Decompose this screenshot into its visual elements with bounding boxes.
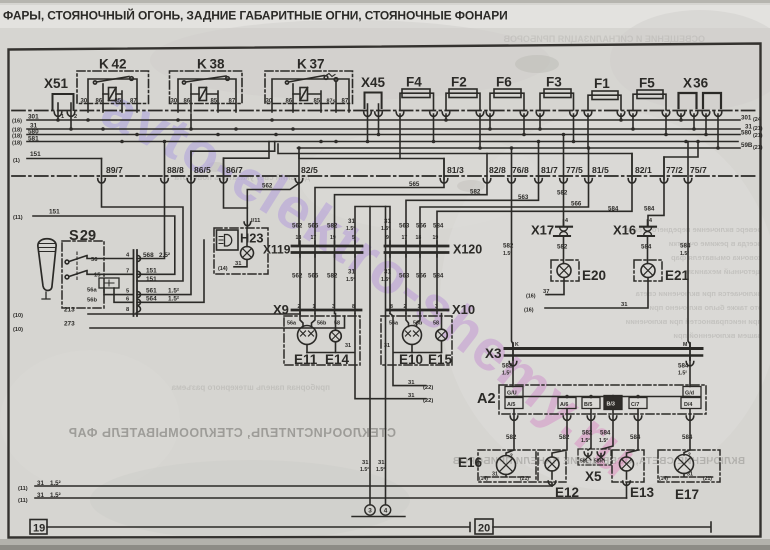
relay K37 <box>265 71 353 112</box>
wire 584 1.5 B/3 to X5 <box>602 410 613 450</box>
wire 584 1.5 (75/7 to X3 M) <box>688 142 690 349</box>
connector X9 <box>292 253 361 314</box>
lamp E12 <box>538 450 566 486</box>
junction dots top <box>56 118 720 150</box>
svg-text:включается при включении света: включается при включении света <box>635 289 762 298</box>
svg-text:2: 2 <box>688 453 691 459</box>
svg-text:ФАРЫ, СТОЯНОЧНЫЙ ОГОНЬ, ЗАДНИЕ: ФАРЫ, СТОЯНОЧНЫЙ ОГОНЬ, ЗАДНИЕ ГАБАРИТНЫ… <box>3 8 508 23</box>
svg-text:562: 562 <box>292 273 303 280</box>
headlamp unit housing E11/E14 <box>284 316 360 365</box>
svg-text:X120: X120 <box>453 243 482 257</box>
svg-text:X 36: X 36 <box>683 76 709 91</box>
svg-text:(1): (1) <box>13 158 20 164</box>
wire 151 feed stub <box>27 158 102 160</box>
svg-text:G/d: G/d <box>685 391 694 397</box>
svg-text:582: 582 <box>559 434 570 441</box>
svg-text:82/8: 82/8 <box>489 165 506 175</box>
svg-text:A/6: A/6 <box>560 402 568 408</box>
lamp E20 <box>546 260 579 295</box>
wire 580 bus <box>27 134 740 136</box>
svg-text:582: 582 <box>557 190 568 197</box>
ground point 4 <box>352 505 405 517</box>
svg-text:566: 566 <box>416 223 427 230</box>
svg-text:20: 20 <box>478 523 490 535</box>
svg-text:584: 584 <box>680 243 691 250</box>
svg-text:565: 565 <box>308 223 319 230</box>
svg-text:58: 58 <box>433 321 439 327</box>
svg-text:565: 565 <box>308 273 319 280</box>
svg-text:563: 563 <box>399 223 410 230</box>
connector X120 <box>385 241 448 257</box>
switch S29 <box>62 241 133 308</box>
svg-text:2: 2 <box>510 454 513 460</box>
svg-text:E20: E20 <box>582 268 606 283</box>
svg-text:82/5: 82/5 <box>301 165 318 175</box>
svg-text:(21): (21) <box>753 145 763 151</box>
svg-text:K 37: K 37 <box>297 57 324 72</box>
wire 213 <box>88 312 300 314</box>
svg-text:K: K <box>515 342 519 348</box>
svg-text:19: 19 <box>33 523 45 535</box>
svg-text:82/1: 82/1 <box>635 165 652 175</box>
svg-text:30: 30 <box>171 99 178 105</box>
wire 568 2.5 (88/8 to S29 pin4) <box>137 142 165 259</box>
svg-text:561: 561 <box>146 288 157 295</box>
svg-text:31: 31 <box>37 480 44 487</box>
svg-text:19: 19 <box>330 235 336 241</box>
connector X16 <box>638 220 656 264</box>
svg-text:56a: 56a <box>87 288 97 294</box>
svg-text:5: 5 <box>352 235 355 241</box>
svg-text:81/5: 81/5 <box>592 165 609 175</box>
svg-text:1.5²: 1.5² <box>346 226 355 232</box>
svg-text:A/5: A/5 <box>507 402 515 408</box>
wire 151 (11) to S29 pin7 <box>33 216 175 274</box>
connector X17 <box>554 220 572 264</box>
wire 31 ground X9 <box>307 314 426 399</box>
svg-text:582: 582 <box>502 363 513 370</box>
wire 584 D/4 to E17 <box>684 410 690 456</box>
svg-text:1.5²: 1.5² <box>581 438 590 444</box>
svg-text:77/2: 77/2 <box>666 165 683 175</box>
svg-text:2: 2 <box>404 304 407 310</box>
svg-text:3: 3 <box>332 304 335 310</box>
connector X36 <box>677 93 722 148</box>
svg-text:563: 563 <box>399 273 410 280</box>
svg-text:58R i: 58R i <box>594 459 606 465</box>
svg-text:81/7: 81/7 <box>541 165 558 175</box>
svg-text:1.5²: 1.5² <box>381 277 390 283</box>
svg-text:(21): (21) <box>703 476 712 482</box>
svg-text:76/8: 76/8 <box>512 165 529 175</box>
wire 301 bus <box>27 119 740 121</box>
svg-text:(18): (18) <box>12 141 22 147</box>
wire 562 (82/5 to H23) <box>247 184 298 228</box>
svg-text:30: 30 <box>81 99 88 105</box>
wire 31 ground line 1 <box>35 485 552 487</box>
svg-text:(10): (10) <box>13 313 23 319</box>
rail pin cups row2 <box>98 179 692 183</box>
svg-text:7: 7 <box>126 269 129 275</box>
svg-text:(21): (21) <box>753 133 763 139</box>
connector X3 <box>505 343 702 387</box>
svg-text:(11): (11) <box>18 486 28 492</box>
wire segment y153.5 <box>278 144 632 180</box>
svg-text:1: 1 <box>61 114 64 120</box>
svg-text:30: 30 <box>266 99 273 105</box>
lamp E15 <box>436 314 448 353</box>
svg-text:213: 213 <box>64 307 75 314</box>
svg-text:584: 584 <box>433 273 444 280</box>
svg-text:87: 87 <box>342 99 349 105</box>
svg-text:37: 37 <box>543 289 549 295</box>
svg-text:584: 584 <box>644 206 655 213</box>
fuse F1 <box>584 91 625 148</box>
svg-text:G/U: G/U <box>507 391 517 397</box>
svg-text:1: 1 <box>418 304 421 310</box>
svg-text:15: 15 <box>94 273 101 279</box>
svg-text:щеточный механизм: щеточный механизм <box>685 267 762 276</box>
relay K38 <box>170 71 243 112</box>
svg-text:B/5: B/5 <box>584 402 592 408</box>
svg-text:75/7: 75/7 <box>690 165 707 175</box>
svg-text:584: 584 <box>600 430 611 437</box>
svg-text:(22): (22) <box>423 385 433 391</box>
lamp E11 <box>298 314 317 353</box>
svg-text:89/7: 89/7 <box>106 165 123 175</box>
svg-text:X51: X51 <box>44 76 69 91</box>
wire 31 ground line 2 <box>35 497 627 499</box>
svg-text:M: M <box>683 342 687 348</box>
svg-text:582: 582 <box>557 244 568 251</box>
svg-text:(18): (18) <box>12 134 22 140</box>
fuse F4 <box>396 89 437 159</box>
svg-text:58L: 58L <box>580 459 589 465</box>
svg-text:1.5²: 1.5² <box>346 277 355 283</box>
wire 584 (77/2 to X16) <box>648 157 664 226</box>
svg-text:F4: F4 <box>406 75 422 90</box>
svg-text:E13: E13 <box>630 485 655 500</box>
svg-text:56a: 56a <box>389 321 399 327</box>
svg-text:(11): (11) <box>18 498 28 504</box>
connector rail (fuse box upper boundary) <box>12 110 756 112</box>
connector X5 <box>578 449 611 465</box>
lamp E21 <box>545 260 662 308</box>
svg-text:I/11: I/11 <box>251 218 261 224</box>
mirrored print-through from reverse page <box>68 426 396 440</box>
wire 581 bus <box>27 141 738 143</box>
wire 31 1.5 long left <box>369 207 371 505</box>
svg-text:X5: X5 <box>585 469 602 484</box>
svg-text:31: 31 <box>687 472 693 478</box>
svg-text:31: 31 <box>408 393 415 399</box>
svg-text:X16: X16 <box>613 223 636 238</box>
wire 582 A/5 to E16 <box>506 410 514 456</box>
svg-text:(22): (22) <box>423 398 433 404</box>
wire 582 A/6 to E12 <box>552 410 567 458</box>
connector X10 <box>387 253 448 314</box>
svg-text:ОСВЕЩЕНИЕ И СИГНАЛИЗАЦИЯ ПРИБО: ОСВЕЩЕНИЕ И СИГНАЛИЗАЦИЯ ПРИБОРОВ <box>503 34 705 44</box>
lamp E16 <box>478 450 536 482</box>
wire segment y158.5 <box>299 154 444 180</box>
connector X119 <box>292 241 362 257</box>
svg-text:(24: (24 <box>753 117 761 123</box>
svg-text:568: 568 <box>143 252 154 259</box>
svg-text:88/8: 88/8 <box>167 165 184 175</box>
svg-text:A2: A2 <box>477 391 496 407</box>
svg-text:584: 584 <box>608 206 619 213</box>
svg-text:вашем включенной при: вашем включенной при <box>673 331 762 340</box>
svg-text:(11): (11) <box>13 215 23 221</box>
headlamp unit housing E10/E15 <box>381 316 452 365</box>
svg-text:562: 562 <box>262 183 273 190</box>
svg-text:1.5²: 1.5² <box>168 288 179 295</box>
svg-text:1.5²: 1.5² <box>680 251 689 257</box>
svg-text:1.5²: 1.5² <box>599 438 608 444</box>
svg-text:582: 582 <box>582 430 593 437</box>
wire 582 1.5 (76/8 to X3 K) <box>512 148 514 348</box>
relay K42 <box>77 71 149 112</box>
svg-text:582: 582 <box>506 434 517 441</box>
svg-text:(16): (16) <box>524 308 534 314</box>
svg-text:86/5: 86/5 <box>194 165 211 175</box>
svg-text:17: 17 <box>311 235 317 241</box>
wire segment 86/7 upper <box>224 142 270 180</box>
svg-text:E17: E17 <box>675 487 699 502</box>
svg-text:580: 580 <box>28 129 39 136</box>
wire 565 (81/3 to X119) <box>315 159 444 247</box>
wire 59B bus <box>298 147 741 149</box>
svg-text:X17: X17 <box>531 223 554 238</box>
svg-text:58: 58 <box>334 321 340 327</box>
svg-text:31: 31 <box>384 218 391 225</box>
svg-text:1.5²: 1.5² <box>376 467 385 473</box>
svg-text:F1: F1 <box>594 76 610 91</box>
svg-text:(16): (16) <box>12 119 22 125</box>
svg-text:1: 1 <box>313 304 316 310</box>
svg-text:2.5²: 2.5² <box>159 252 170 259</box>
svg-text:X45: X45 <box>361 75 386 90</box>
svg-text:85: 85 <box>115 99 122 105</box>
connector X51 <box>53 94 75 129</box>
svg-text:4: 4 <box>384 508 388 515</box>
svg-text:2: 2 <box>74 114 77 120</box>
wire 273 <box>90 316 345 328</box>
svg-text:F5: F5 <box>639 76 655 91</box>
svg-text:31: 31 <box>384 269 391 276</box>
svg-text:584: 584 <box>630 434 641 441</box>
wire 566 (81/5 to X120) <box>420 148 589 246</box>
svg-text:87: 87 <box>130 99 137 105</box>
svg-text:31: 31 <box>37 492 44 499</box>
svg-text:1.5²: 1.5² <box>678 371 687 377</box>
wire segment 561 upper <box>191 142 275 180</box>
svg-text:E15: E15 <box>428 352 453 367</box>
svg-text:1.5²: 1.5² <box>502 371 511 377</box>
lamp E17 <box>658 450 720 482</box>
svg-text:4: 4 <box>565 218 568 224</box>
svg-text:F3: F3 <box>546 75 562 90</box>
svg-text:85: 85 <box>314 99 321 105</box>
wire I/11 (86/7 to H23) <box>224 158 248 208</box>
svg-text:S 29: S 29 <box>69 228 96 244</box>
svg-text:582: 582 <box>327 223 338 230</box>
svg-text:56b: 56b <box>413 321 423 327</box>
svg-text:E14: E14 <box>325 352 350 367</box>
svg-text:3: 3 <box>368 508 372 515</box>
svg-text:31: 31 <box>348 218 355 225</box>
svg-text:86: 86 <box>184 99 191 105</box>
svg-text:(16): (16) <box>526 294 536 300</box>
svg-text:31: 31 <box>345 343 351 349</box>
svg-text:31: 31 <box>492 472 498 478</box>
svg-text:562: 562 <box>292 223 303 230</box>
svg-text:C/7: C/7 <box>631 402 639 408</box>
svg-text:(14): (14) <box>479 476 488 482</box>
svg-text:1.5²: 1.5² <box>503 251 512 257</box>
svg-text:X9: X9 <box>273 302 289 317</box>
svg-text:31: 31 <box>384 343 390 349</box>
svg-text:59B: 59B <box>741 142 753 149</box>
lamp H23 <box>214 228 268 274</box>
svg-text:1.5²: 1.5² <box>50 492 61 499</box>
svg-text:31: 31 <box>362 460 369 466</box>
svg-text:8: 8 <box>352 304 355 310</box>
wire 89/7 to S29 <box>102 159 184 282</box>
svg-text:31: 31 <box>621 302 628 308</box>
svg-text:565: 565 <box>409 181 420 188</box>
svg-text:17: 17 <box>402 235 408 241</box>
svg-text:(14): (14) <box>218 266 228 272</box>
svg-text:19: 19 <box>433 235 439 241</box>
svg-text:8: 8 <box>390 304 393 310</box>
svg-text:56: 56 <box>91 257 98 263</box>
wire 564 1.5 (S29 pin6) <box>137 240 204 302</box>
svg-text:81/3: 81/3 <box>447 165 464 175</box>
svg-text:31: 31 <box>348 269 355 276</box>
svg-text:1.5²: 1.5² <box>50 480 61 487</box>
wire 542 (82/5 to X119) <box>298 148 300 246</box>
svg-text:301: 301 <box>741 115 752 122</box>
wire 561 1.5 (86/5 to S29 pin5) <box>137 114 191 295</box>
svg-text:31: 31 <box>408 380 415 386</box>
svg-text:(21): (21) <box>520 476 529 482</box>
wire 582 (82/8 to X119) <box>335 154 488 247</box>
svg-text:E11: E11 <box>294 352 318 367</box>
svg-text:1.5²: 1.5² <box>360 467 369 473</box>
wire segment right 157 <box>664 142 698 180</box>
svg-text:584: 584 <box>682 434 693 441</box>
ground rail 19 <box>30 520 470 535</box>
fuse F2 <box>442 89 484 148</box>
svg-text:581: 581 <box>28 136 39 143</box>
svg-text:86/7: 86/7 <box>226 165 243 175</box>
svg-text:584: 584 <box>433 223 444 230</box>
svg-text:563: 563 <box>518 194 529 201</box>
svg-text:31: 31 <box>235 261 242 267</box>
svg-text:151: 151 <box>49 209 60 216</box>
svg-text:B/3: B/3 <box>607 402 615 408</box>
svg-text:87: 87 <box>229 99 236 105</box>
svg-text:584: 584 <box>641 244 652 251</box>
svg-text:584: 584 <box>678 363 689 370</box>
svg-text:(21): (21) <box>753 126 763 132</box>
wire 584 (82/1 to X120) <box>437 154 632 247</box>
svg-text:приборная панель штекерного ра: приборная панель штекерного разъема <box>171 383 330 392</box>
svg-text:F6: F6 <box>496 75 512 90</box>
svg-text:3: 3 <box>435 304 438 310</box>
wire 31 1.5 long right <box>385 207 387 505</box>
fuse F3 <box>536 89 577 142</box>
fuse F5 <box>629 90 670 135</box>
svg-text:X119: X119 <box>263 243 291 257</box>
wire 31 link X119-X120 <box>355 207 390 247</box>
ground point 3 <box>365 505 375 515</box>
svg-text:4: 4 <box>649 218 652 224</box>
svg-text:56b: 56b <box>87 298 97 304</box>
wire 582 1.5 B/5 to X5 <box>588 410 591 451</box>
svg-text:582: 582 <box>327 273 338 280</box>
svg-text:D/4: D/4 <box>684 402 692 408</box>
connector rail 89/7 .. 75/7 <box>12 175 756 177</box>
svg-text:151: 151 <box>30 151 41 158</box>
svg-text:это также было включено при: это также было включено при <box>649 303 762 312</box>
svg-text:(14): (14) <box>659 476 668 482</box>
lamp E13 <box>612 450 644 498</box>
connector X45 <box>364 93 383 142</box>
svg-text:18: 18 <box>416 235 422 241</box>
connector strip S29 pins 4/7/5/6/8 <box>134 250 141 316</box>
svg-text:56a: 56a <box>287 321 297 327</box>
lamp E14 <box>330 314 342 353</box>
svg-text:K 42: K 42 <box>99 57 126 72</box>
svg-text:86: 86 <box>96 99 103 105</box>
svg-text:2: 2 <box>298 304 301 310</box>
svg-text:X10: X10 <box>452 302 475 317</box>
wire 582 (77/5 to X17) <box>563 135 565 227</box>
svg-text:580: 580 <box>741 130 752 137</box>
svg-text:18: 18 <box>296 235 302 241</box>
svg-text:151: 151 <box>146 268 157 275</box>
svg-text:H23: H23 <box>240 231 263 246</box>
svg-text:E21: E21 <box>665 268 690 283</box>
A2 output cups <box>510 416 694 420</box>
svg-text:566: 566 <box>416 273 427 280</box>
svg-text:566: 566 <box>571 201 582 208</box>
svg-text:(10): (10) <box>13 327 23 333</box>
svg-text:151: 151 <box>146 276 157 283</box>
lamp E10 <box>403 314 422 353</box>
control unit A2 <box>499 385 706 414</box>
wire 213 link <box>299 313 301 316</box>
svg-text:273: 273 <box>64 321 75 328</box>
svg-text:31: 31 <box>378 460 385 466</box>
wire 584 C/7 to E13 <box>627 410 639 458</box>
wire 31 bus <box>27 128 740 130</box>
svg-text:85: 85 <box>211 99 218 105</box>
wire 31 ground X10 <box>390 314 442 386</box>
wire 37 stub (16) <box>547 294 549 296</box>
svg-text:X3: X3 <box>485 346 502 361</box>
svg-text:87s: 87s <box>327 99 336 105</box>
svg-text:E16: E16 <box>458 455 483 470</box>
svg-text:при неисправностей при включен: при неисправностей при включении <box>625 317 762 326</box>
svg-text:301: 301 <box>28 114 39 121</box>
ground rail 20 <box>475 519 711 534</box>
svg-text:E12: E12 <box>555 485 579 500</box>
svg-text:F2: F2 <box>451 75 467 90</box>
svg-text:9: 9 <box>386 235 389 241</box>
